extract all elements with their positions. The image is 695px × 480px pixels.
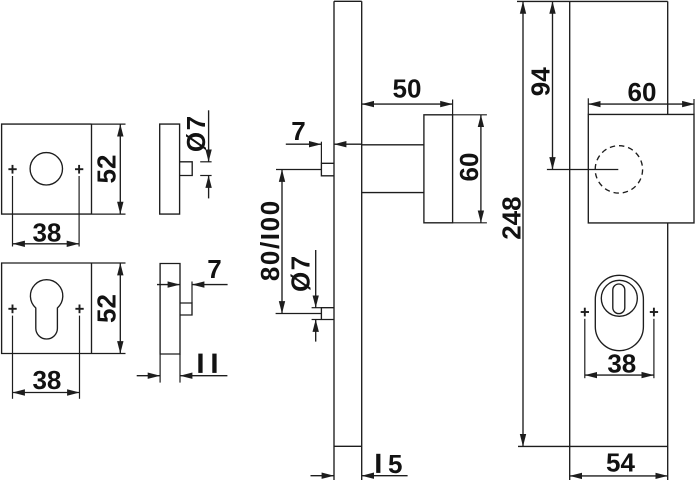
dimension 54 (plate width) <box>570 447 668 477</box>
svg-text:38: 38 <box>32 365 61 395</box>
cylinder cover oval <box>595 275 643 350</box>
plate 1 spindle stub <box>180 162 193 176</box>
svg-text:38: 38 <box>607 349 636 379</box>
svg-text:50: 50 <box>393 74 422 104</box>
svg-text:52: 52 <box>91 155 121 184</box>
backplate stub 1 (handle fixing) <box>321 163 334 176</box>
right plate right screw cross <box>650 308 658 379</box>
dimension 7 (stub 1 projection) <box>286 116 362 163</box>
plate 2 right screw cross <box>75 305 83 399</box>
svg-text:52: 52 <box>92 294 122 323</box>
svg-text:80/I00: 80/I00 <box>255 199 285 281</box>
svg-text:7: 7 <box>291 116 305 146</box>
plate 1 right screw cross <box>75 165 83 247</box>
right plate left screw cross <box>581 308 589 379</box>
dimension 38 (plate 1 hole spacing) <box>13 217 80 247</box>
cylinder face circle <box>601 280 637 316</box>
dimension 52 (plate 2 height) <box>92 263 126 354</box>
side view of plate 2 <box>160 264 180 355</box>
knob, side view <box>424 115 453 223</box>
svg-text:7: 7 <box>207 254 221 284</box>
plate 2 left screw cross <box>8 305 16 399</box>
dimension 38 (security escutcheon hole spacing) <box>585 349 654 379</box>
dimension 60 (knob square width) <box>588 77 694 114</box>
dimension 38 (plate 2 hole spacing) <box>13 365 80 395</box>
svg-text:38: 38 <box>32 217 61 247</box>
plate 2 outline (bottom-left rose, front view) <box>2 263 92 354</box>
dimension 50 (knob projection) <box>362 74 453 115</box>
plate 2 cylinder stub <box>180 303 192 315</box>
dimension 11 (plate 2 thickness) <box>137 354 228 383</box>
svg-text:60: 60 <box>628 77 657 107</box>
dimension 248 (plate length) <box>496 1 526 446</box>
dimension Ø7 (stub 2 diameter) <box>285 250 321 342</box>
svg-text:Ø7: Ø7 <box>285 254 315 292</box>
plate 1 left screw cross <box>8 165 16 247</box>
svg-text:94: 94 <box>526 67 556 96</box>
dashed knob circle <box>595 146 642 193</box>
dimension 60 (knob diameter, side view) <box>453 115 487 223</box>
svg-text:54: 54 <box>606 447 635 477</box>
dimension Ø7 (stub diameter, side view 1) <box>181 110 212 198</box>
knob square, front view <box>588 114 694 222</box>
knob neck <box>362 145 424 193</box>
dimension 80/100 (stub centre distance) <box>255 170 321 314</box>
backplate stub 2 (cylinder fixing) <box>321 308 334 320</box>
plate 1 outline (top-left rose, front view) <box>2 124 92 214</box>
plate 2 euro profile cylinder hole <box>30 280 62 339</box>
dimension 7 (stub projection, side view 2) <box>157 254 228 303</box>
svg-text:60: 60 <box>454 153 484 182</box>
plate 1 knob hole <box>30 153 62 185</box>
dimension 52 (plate 1 height) <box>91 124 125 214</box>
svg-text:5: 5 <box>388 449 402 479</box>
security plate outline (right, front view) <box>517 1 668 480</box>
side view of plate 1 <box>160 124 180 214</box>
long backplate, side view <box>334 1 362 480</box>
svg-text:Ø7: Ø7 <box>181 114 211 152</box>
knob centreline <box>547 169 618 171</box>
dimension 94 (knob centre height) <box>526 1 556 169</box>
dimension 15 (backplate thickness) <box>311 449 408 479</box>
keyway slot <box>613 284 625 314</box>
svg-text:248: 248 <box>496 196 526 239</box>
